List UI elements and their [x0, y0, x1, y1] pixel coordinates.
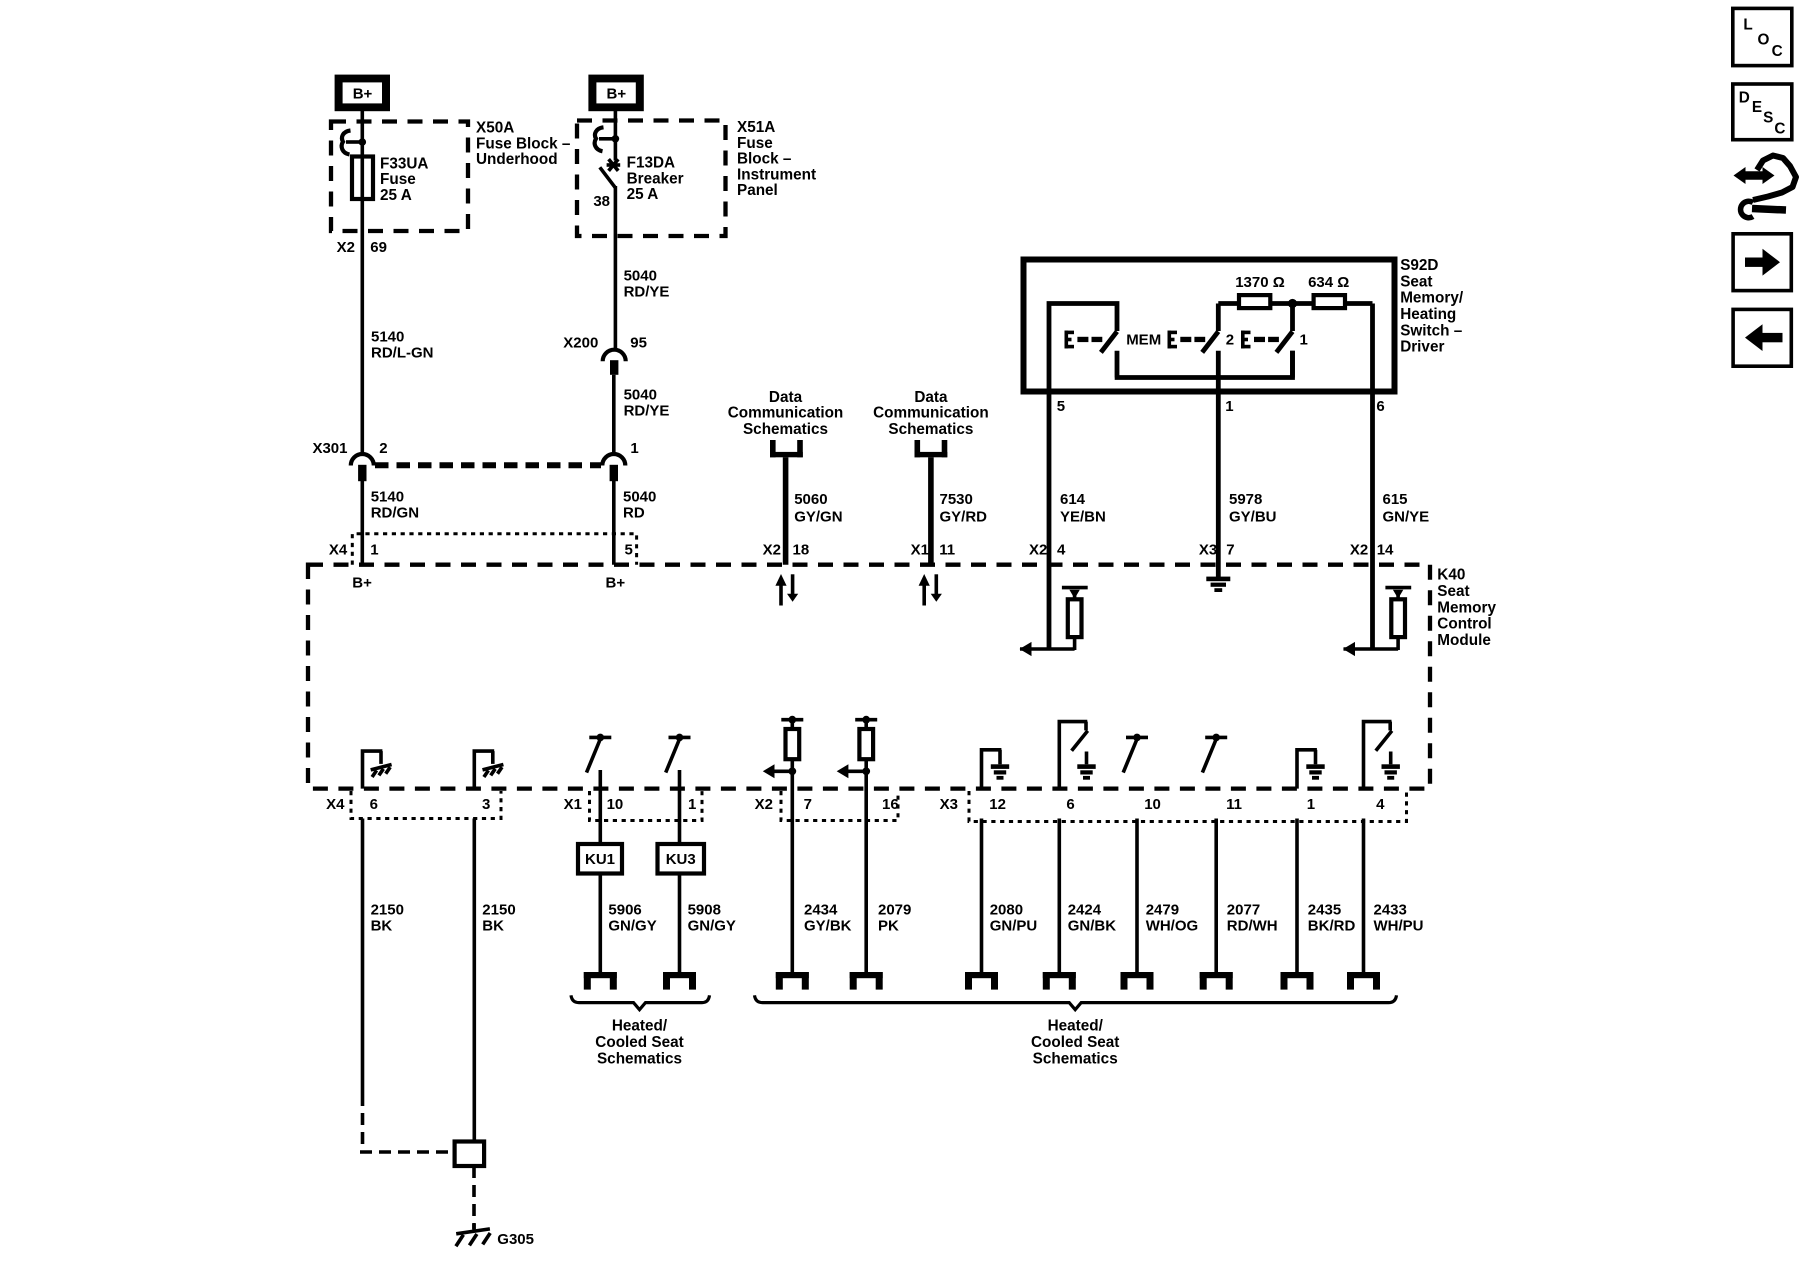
dashed wire segment from 2150 BK to splice: [360, 1094, 453, 1152]
wire B+ right feed into breaker: [614, 111, 618, 161]
wire X301 pin 2 to module X4 pin 1: [360, 481, 364, 565]
svg-text:2434: 2434: [804, 902, 838, 919]
wire serial data 7530 GY/RD: [931, 457, 987, 564]
wire 2080 GN/PU from pin X3:12: [982, 819, 1038, 973]
internal switch to ground symbol above pin 4: [1364, 722, 1400, 789]
svg-text:2079: 2079: [878, 902, 911, 919]
svg-text:5040: 5040: [624, 387, 657, 404]
off-page connector under wire 2077: [1200, 972, 1233, 990]
svg-text:GY/BU: GY/BU: [1229, 508, 1277, 525]
fuse block X50A dashed outline: [331, 122, 468, 232]
svg-text:X2: X2: [755, 796, 773, 813]
internal ground symbol above pin 1: [1297, 750, 1325, 789]
svg-text:O: O: [1758, 32, 1770, 49]
wire 2435 BK/RD from pin 1: [1297, 819, 1355, 973]
svg-text:X51A: X51A: [737, 119, 775, 136]
sidebar button LOC: [1733, 8, 1792, 65]
svg-text:614: 614: [1060, 491, 1086, 508]
svg-text:C: C: [1772, 43, 1783, 60]
module pin X2:14 labels: [1350, 542, 1394, 559]
wire serial data 5060 GY/GN: [786, 457, 843, 564]
svg-text:X2: X2: [1350, 542, 1368, 559]
svg-text:GN/BK: GN/BK: [1068, 918, 1117, 935]
module pin 6 label (X3): [1066, 796, 1074, 813]
svg-text:1: 1: [1300, 331, 1308, 348]
svg-text:X2: X2: [1029, 542, 1047, 559]
serial data arrows below pin 18: [775, 574, 798, 606]
wire label 5040 RD/YE (lower): [624, 387, 670, 420]
svg-text:X4: X4: [329, 542, 348, 559]
wire label 5040 RD: [623, 488, 656, 521]
svg-text:1: 1: [1225, 398, 1233, 415]
wire 2150 BK from pin 3 to splice: [474, 819, 515, 1142]
module K40 label: [1437, 567, 1496, 649]
connector X2 dotted box (bottom): [781, 791, 898, 821]
off-page connector under wire 2424: [1043, 972, 1076, 990]
svg-text:6: 6: [370, 796, 378, 813]
svg-text:12: 12: [989, 796, 1006, 813]
wire X200 to connector X301 pin 1: [612, 375, 616, 454]
splice block: [455, 1142, 485, 1167]
svg-text:Memory/: Memory/: [1400, 290, 1464, 307]
internal ground with case symbol above pin 3: [474, 751, 503, 789]
svg-text:11: 11: [939, 542, 955, 559]
svg-text:Fuse: Fuse: [380, 171, 416, 188]
svg-text:Data: Data: [914, 389, 948, 406]
circuit breaker F13DA label: [627, 155, 684, 203]
off-page connector under wire 2433: [1347, 972, 1380, 990]
module pin 11 label (X3): [1226, 796, 1242, 813]
battery feed terminal B+ (left): [335, 75, 390, 112]
svg-text:BK/RD: BK/RD: [1308, 918, 1356, 935]
wire 614 YE/BN from S92D pin 5 to module X2 pin 4: [1049, 391, 1106, 649]
svg-text:X200: X200: [563, 335, 598, 352]
svg-text:X1: X1: [564, 796, 582, 813]
svg-text:GN/GY: GN/GY: [688, 918, 736, 935]
svg-text:25 A: 25 A: [627, 186, 659, 203]
connector X301 pin 2: [312, 440, 387, 481]
driver output symbol below pin X2:4 (resistor and arrow): [1020, 588, 1088, 657]
module pin 16 label: [882, 796, 899, 813]
svg-text:F33UA: F33UA: [380, 155, 428, 172]
off-page connector under wire 2479: [1121, 972, 1154, 990]
wire label 5140 RD/GN: [371, 488, 419, 521]
wire 2479 WH/OG from pin 10: [1137, 819, 1198, 973]
internal node B+ (right): [606, 575, 626, 592]
module pin X2:7 labels: [755, 796, 812, 813]
connector X4 dotted box (bottom): [351, 791, 501, 819]
svg-text:2077: 2077: [1227, 902, 1260, 919]
svg-text:GN/YE: GN/YE: [1383, 508, 1430, 525]
svg-text:5906: 5906: [608, 902, 641, 919]
svg-text:2435: 2435: [1308, 902, 1341, 919]
internal switch symbol above pin 1: [666, 734, 691, 773]
svg-text:L: L: [1743, 17, 1752, 34]
svg-text:S: S: [1763, 110, 1773, 127]
off-page reference Data Communication Schematics (left): [728, 389, 844, 457]
battery feed terminal B+ (right): [588, 75, 643, 112]
internal driver output symbol above pin X2:7: [763, 716, 804, 779]
svg-text:GY/RD: GY/RD: [940, 508, 988, 525]
svg-text:5: 5: [625, 542, 633, 559]
connector X200 pin 95: [563, 335, 647, 375]
svg-text:Cooled Seat: Cooled Seat: [1031, 1034, 1119, 1051]
svg-text:3: 3: [482, 796, 490, 813]
svg-text:S92D: S92D: [1400, 257, 1438, 274]
relay box KU1: [578, 844, 622, 874]
svg-text:5908: 5908: [688, 902, 721, 919]
svg-text:B+: B+: [352, 575, 372, 592]
svg-text:X1: X1: [911, 542, 929, 559]
sidebar icon wiring diagram navigation: [1734, 156, 1797, 218]
internal ground with case symbol above pin X4:6: [363, 751, 392, 789]
svg-text:18: 18: [793, 542, 810, 559]
svg-text:Fuse: Fuse: [737, 135, 773, 152]
svg-text:2150: 2150: [371, 902, 404, 919]
off-page connector under wire 5906: [584, 972, 617, 990]
wire 2424 GN/BK from pin 6: [1059, 819, 1116, 973]
svg-text:X50A: X50A: [476, 120, 514, 137]
svg-text:GN/PU: GN/PU: [990, 918, 1038, 935]
svg-text:GN/GY: GN/GY: [608, 918, 656, 935]
svg-text:2479: 2479: [1146, 902, 1179, 919]
internal switch symbol above pin 11: [1202, 734, 1227, 773]
svg-text:GY/BK: GY/BK: [804, 918, 852, 935]
svg-text:X2: X2: [337, 239, 355, 256]
svg-text:5040: 5040: [623, 488, 656, 505]
svg-text:KU1: KU1: [585, 851, 615, 868]
fuse F33UA label: [380, 155, 428, 203]
svg-text:B+: B+: [606, 575, 626, 592]
wire label 5040 RD/YE (upper): [624, 268, 670, 301]
brace to Heated/Cooled Seat Schematics (right): [755, 995, 1397, 1067]
svg-text:K40: K40: [1437, 567, 1465, 584]
wire 2077 RD/WH from pin 11: [1216, 819, 1277, 973]
sidebar button forward arrow: [1733, 234, 1791, 291]
module pin 10 label (X3): [1144, 796, 1161, 813]
wire 2434 GY/BK from pin X2:7: [792, 759, 851, 972]
svg-text:7: 7: [1226, 542, 1234, 559]
driver output symbol below pin X2:14 (resistor and arrow): [1343, 588, 1411, 657]
wire label 5140 RD/L-GN: [371, 328, 434, 361]
svg-text:2433: 2433: [1374, 902, 1407, 919]
serial data arrows below pin 11: [919, 574, 942, 606]
svg-text:7: 7: [804, 796, 812, 813]
fuse block clip symbol (left): [342, 131, 366, 155]
switch MEM actuator symbol: [1065, 331, 1162, 349]
S92D pin 5: [1057, 398, 1065, 415]
S92D pin 1: [1225, 398, 1233, 415]
wire 2079 PK from pin 16: [866, 759, 911, 972]
svg-text:RD/YE: RD/YE: [624, 403, 670, 420]
pin label X2 / 69 (fuse block output): [337, 239, 387, 256]
svg-text:Instrument: Instrument: [737, 166, 816, 183]
svg-text:Data: Data: [769, 389, 803, 406]
svg-text:D: D: [1739, 90, 1750, 107]
module pin X1:10 labels: [564, 796, 624, 813]
svg-text:YE/BN: YE/BN: [1060, 508, 1106, 525]
S92D internal supply rail wiring: [1049, 304, 1373, 390]
dashed wire from splice to ground G305: [472, 1166, 476, 1229]
svg-text:6: 6: [1066, 796, 1074, 813]
svg-text:2: 2: [379, 440, 387, 457]
svg-text:5978: 5978: [1229, 491, 1262, 508]
svg-text:95: 95: [630, 335, 647, 352]
svg-text:PK: PK: [878, 918, 899, 935]
internal switch symbol above pin X1:10: [587, 734, 612, 773]
svg-text:X3: X3: [940, 796, 958, 813]
svg-text:KU3: KU3: [666, 851, 696, 868]
switch MEM contact blade: [1101, 332, 1117, 353]
svg-text:2080: 2080: [990, 902, 1023, 919]
S92D pin 6: [1376, 398, 1384, 415]
svg-text:1370 Ω: 1370 Ω: [1235, 274, 1285, 291]
module pin X1:11 labels: [911, 542, 955, 559]
svg-text:X4: X4: [326, 796, 345, 813]
resistor 1370 ohm: [1235, 274, 1285, 308]
svg-text:Schematics: Schematics: [1033, 1050, 1118, 1067]
wire 2150 BK from pin X4:6: [363, 819, 404, 1095]
wire X301 pin 1 to module pin 5: [612, 481, 616, 565]
svg-text:5140: 5140: [371, 328, 404, 345]
svg-text:634 Ω: 634 Ω: [1308, 274, 1349, 291]
svg-text:Switch –: Switch –: [1400, 322, 1463, 339]
svg-text:E: E: [1752, 99, 1762, 116]
off-page connector under wire 2435: [1281, 972, 1314, 990]
svg-text:Control: Control: [1437, 616, 1491, 633]
svg-text:C: C: [1774, 121, 1785, 138]
ground G305: [456, 1224, 534, 1248]
svg-text:16: 16: [882, 796, 899, 813]
svg-text:Module: Module: [1437, 632, 1491, 649]
svg-text:2: 2: [1226, 331, 1234, 348]
svg-text:615: 615: [1383, 491, 1408, 508]
wire 5906 GN/GY from pin X1:10: [600, 770, 656, 972]
wire B+ feed through fuse F33UA down to connector X301: [360, 111, 364, 454]
svg-text:GY/GN: GY/GN: [794, 508, 842, 525]
wire 615 GN/YE from S92D pin 6 to module X2 pin 14: [1373, 304, 1430, 650]
svg-text:1: 1: [688, 796, 696, 813]
internal driver output symbol above pin 16: [837, 716, 878, 779]
module pin X2:4 labels: [1029, 542, 1066, 559]
internal node B+ (left): [352, 575, 372, 592]
svg-text:5060: 5060: [794, 491, 827, 508]
svg-text:10: 10: [607, 796, 624, 813]
svg-text:Heating: Heating: [1400, 306, 1456, 323]
svg-text:RD/WH: RD/WH: [1227, 918, 1278, 935]
switch assembly S92D label: [1400, 257, 1464, 356]
module pin 5 label: [625, 542, 633, 559]
module pin 1 label (X3): [1307, 796, 1315, 813]
svg-text:X2: X2: [763, 542, 781, 559]
fuse block X51A dashed outline: [577, 121, 726, 237]
off-page reference Data Communication Schematics (right): [873, 389, 989, 457]
wire 2433 WH/PU from pin 4: [1364, 819, 1424, 973]
svg-text:38: 38: [593, 193, 610, 210]
module pin X4:1 labels: [329, 542, 379, 559]
svg-text:4: 4: [1057, 542, 1066, 559]
module pin X2:18 labels: [763, 542, 810, 559]
svg-text:69: 69: [370, 239, 387, 256]
switch 1 actuator symbol: [1241, 331, 1308, 349]
svg-text:11: 11: [1226, 796, 1242, 813]
svg-text:G305: G305: [497, 1231, 534, 1248]
off-page connector under wire 2079: [850, 972, 883, 990]
dashed jumper wire between X301 pin 2 and pin 1: [375, 462, 601, 468]
wire breaker output down to connector X200: [614, 186, 618, 350]
sidebar button back arrow: [1733, 309, 1791, 366]
svg-text:Driver: Driver: [1400, 339, 1444, 356]
switch 2 actuator symbol: [1168, 331, 1235, 349]
svg-text:Fuse Block –: Fuse Block –: [476, 135, 571, 152]
relay box KU3: [658, 844, 705, 874]
svg-text:Underhood: Underhood: [476, 151, 558, 168]
svg-text:Memory: Memory: [1437, 599, 1496, 616]
svg-text:X3: X3: [1199, 542, 1217, 559]
svg-text:5: 5: [1057, 398, 1065, 415]
connector X4 dotted box (top): [352, 534, 636, 565]
switch assembly S92D box outline: [1024, 260, 1395, 392]
svg-text:7530: 7530: [940, 491, 973, 508]
junction node between resistors: [1288, 299, 1297, 308]
svg-text:Heated/: Heated/: [612, 1017, 668, 1034]
circuit breaker F13DA symbol (asterisk and blade): [600, 159, 620, 188]
svg-text:Seat: Seat: [1437, 583, 1469, 600]
fuse F33UA 25A body: [352, 157, 373, 200]
svg-text:5140: 5140: [371, 488, 404, 505]
switch 2 contact blade: [1202, 332, 1218, 353]
svg-text:BK: BK: [371, 918, 393, 935]
svg-text:B+: B+: [607, 86, 627, 103]
svg-text:Schematics: Schematics: [597, 1050, 682, 1067]
brace to Heated/Cooled Seat Schematics (left): [571, 995, 710, 1067]
svg-text:RD/L-GN: RD/L-GN: [371, 344, 434, 361]
svg-text:2150: 2150: [482, 902, 515, 919]
connector X301 pin 1: [602, 440, 638, 481]
svg-text:MEM: MEM: [1126, 331, 1161, 348]
fuse block clip symbol (right): [595, 127, 620, 151]
svg-text:F13DA: F13DA: [627, 155, 675, 172]
svg-text:BK: BK: [482, 918, 504, 935]
svg-text:5040: 5040: [624, 268, 657, 285]
ground symbol below pin X3:7: [1206, 577, 1230, 592]
svg-text:Block –: Block –: [737, 151, 792, 168]
module pin 4 label (X3): [1376, 796, 1385, 813]
svg-text:Schematics: Schematics: [743, 421, 828, 438]
module pin 1 label (X1): [688, 796, 696, 813]
svg-text:Cooled Seat: Cooled Seat: [595, 1034, 683, 1051]
connector X1 dotted box (bottom): [590, 791, 703, 821]
svg-text:1: 1: [630, 440, 638, 457]
svg-text:Panel: Panel: [737, 182, 778, 199]
internal ground symbol above pin X3:12: [982, 750, 1010, 789]
S92D lower common rail: [1115, 351, 1293, 391]
svg-text:1: 1: [1307, 796, 1315, 813]
off-page connector under wire 2434: [776, 972, 809, 990]
off-page connector under wire 2080: [965, 972, 998, 990]
off-page connector under wire 5908: [663, 972, 696, 990]
module pin X3:7 labels: [1199, 542, 1235, 559]
internal switch symbol above pin 10: [1123, 734, 1148, 773]
svg-text:6: 6: [1376, 398, 1384, 415]
switch 1 contact blade: [1276, 332, 1292, 378]
svg-text:Schematics: Schematics: [888, 421, 973, 438]
svg-text:RD/GN: RD/GN: [371, 504, 419, 521]
connector X3 dotted box (bottom): [969, 791, 1407, 822]
module K40 dashed box outline: [308, 565, 1430, 789]
fuse block X50A label: [476, 120, 571, 168]
svg-text:Seat: Seat: [1400, 273, 1432, 290]
svg-text:Heated/: Heated/: [1048, 1017, 1104, 1034]
fuse block X51A label: [737, 119, 816, 199]
wire 5908 GN/GY from pin 1: [680, 770, 736, 972]
svg-text:RD/YE: RD/YE: [624, 284, 670, 301]
svg-text:Breaker: Breaker: [627, 170, 684, 187]
wire 5978 GY/BU from S92D pin 1 to module X3 pin 7: [1218, 391, 1276, 577]
svg-text:RD: RD: [623, 504, 645, 521]
svg-text:14: 14: [1377, 542, 1394, 559]
svg-text:WH/PU: WH/PU: [1374, 918, 1424, 935]
module pin X4:6 labels: [326, 796, 378, 813]
internal switch to ground symbol above pin 6: [1059, 722, 1095, 789]
svg-text:WH/OG: WH/OG: [1146, 918, 1199, 935]
resistor 634 ohm: [1308, 274, 1349, 308]
svg-text:2424: 2424: [1068, 902, 1102, 919]
module pin 3 label: [482, 796, 490, 813]
svg-text:25 A: 25 A: [380, 187, 412, 204]
svg-text:X301: X301: [312, 440, 347, 457]
sidebar button DESC: [1733, 84, 1792, 140]
svg-text:Communication: Communication: [873, 405, 989, 422]
breaker pin number 38: [593, 193, 610, 210]
svg-text:Communication: Communication: [728, 405, 844, 422]
module pin X3:12 labels: [940, 796, 1006, 813]
svg-text:B+: B+: [353, 86, 373, 103]
svg-text:4: 4: [1376, 796, 1385, 813]
svg-text:1: 1: [370, 542, 378, 559]
svg-text:10: 10: [1144, 796, 1161, 813]
